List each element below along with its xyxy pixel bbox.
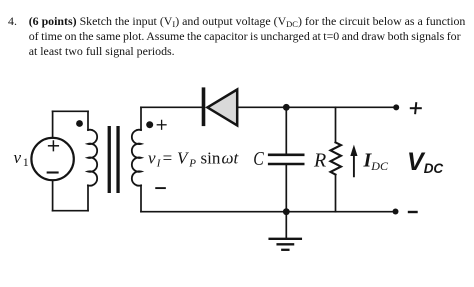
transformer T1 primary coil [88, 130, 97, 186]
svg-text:IDC: IDC [363, 149, 389, 172]
current arrow IDC [350, 145, 357, 177]
problem statement text [8, 14, 17, 28]
resistor R lead top [335, 107, 337, 142]
svg-text:R: R [313, 150, 326, 172]
secondary minus sign [156, 187, 165, 189]
junction dot capacitor bottom [283, 208, 290, 215]
resistor R zigzag [331, 142, 342, 174]
source V1 plus sign [49, 141, 59, 151]
transformer T1 secondary coil [132, 130, 141, 186]
wire: top wire diode to output terminal [237, 106, 396, 108]
polarity dot secondary [146, 121, 153, 128]
output terminal dot bottom [393, 209, 399, 215]
capacitor C lead bottom [285, 165, 287, 212]
secondary plus sign [157, 120, 166, 129]
wire: primary loop left lower [52, 180, 54, 210]
svg-text:VDC: VDC [407, 148, 443, 176]
wire: secondary left upper [140, 107, 142, 130]
output minus sign [409, 211, 417, 213]
source V1 circle [31, 138, 73, 180]
svg-text:v: v [14, 148, 22, 167]
resistor R lead bottom [335, 175, 337, 212]
wire: primary loop bottom [53, 210, 88, 212]
output terminal dot top [393, 104, 399, 110]
svg-text:1: 1 [23, 155, 29, 169]
output plus sign [411, 103, 421, 113]
capacitor C lead top [285, 107, 287, 153]
diode D1 cathode bar [202, 87, 206, 126]
transformer T1 core bars [108, 126, 120, 193]
wire: secondary left lower [140, 185, 142, 211]
wire: primary loop left upper [52, 111, 54, 138]
diode D1 triangle [207, 90, 237, 126]
source V1 minus sign [48, 171, 58, 173]
wire: primary right lower [87, 185, 89, 210]
wire: top wire from secondary to diode [141, 106, 202, 108]
polarity dot primary [76, 120, 83, 127]
capacitor C plates [269, 155, 303, 164]
ground stem [285, 212, 287, 239]
wire: primary loop top [53, 110, 88, 112]
ground bars [270, 239, 301, 250]
svg-text:vI=VPsinωt: vI=VPsinωt [148, 148, 240, 169]
svg-text:C: C [253, 148, 264, 170]
wire: primary right upper [87, 111, 89, 130]
wire: bottom wire [141, 211, 396, 213]
junction dot capacitor top [283, 104, 290, 111]
